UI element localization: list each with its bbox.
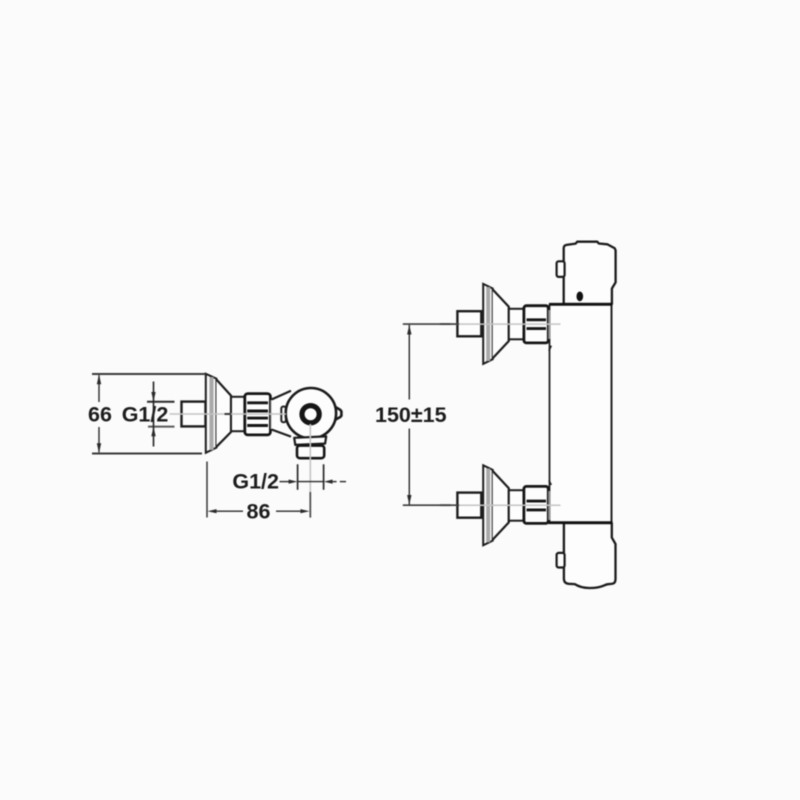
svg-text:86: 86 <box>247 500 271 524</box>
svg-text:66: 66 <box>88 403 112 427</box>
svg-text:G1/2: G1/2 <box>232 470 279 494</box>
svg-text:150±15: 150±15 <box>375 403 447 427</box>
svg-text:G1/2: G1/2 <box>122 403 169 427</box>
